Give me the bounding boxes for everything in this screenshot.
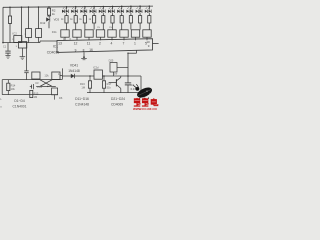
IC2 gate box mid bbox=[93, 66, 102, 80]
resistor R14 10k bbox=[7, 80, 16, 95]
output box HL1 bbox=[61, 30, 69, 41]
diode VD41 bbox=[71, 74, 75, 79]
svg-text:1N: 1N bbox=[97, 27, 100, 29]
gate box D13 bbox=[32, 72, 40, 79]
gate box D25 bbox=[109, 58, 128, 76]
wire astable out bbox=[58, 68, 62, 79]
IC2 box A bbox=[14, 36, 22, 43]
svg-text:D11: D11 bbox=[52, 30, 57, 34]
label CD4015 bbox=[47, 50, 60, 54]
label D11 bbox=[52, 30, 57, 34]
resistor R15 1M bbox=[30, 90, 39, 99]
svg-text:12k: 12k bbox=[44, 73, 49, 77]
svg-text:C1N4148: C1N4148 bbox=[75, 103, 89, 107]
svg-text:8: 8 bbox=[83, 48, 85, 52]
label IC1 bbox=[53, 45, 58, 49]
label 1N4001 bbox=[13, 104, 27, 108]
ground C1 bbox=[5, 56, 10, 59]
pin 9 IC1 right bbox=[148, 44, 150, 48]
svg-text:11: 11 bbox=[87, 42, 91, 46]
capacitor C4 0.47u bbox=[125, 76, 131, 93]
wire top supply rail bbox=[3, 6, 153, 7]
svg-text:D12: D12 bbox=[40, 21, 46, 25]
LED pair VD4 with resistor column 1 bbox=[61, 6, 69, 30]
transistor VT1 bbox=[109, 72, 121, 92]
wire bottom section top rail bbox=[2, 79, 62, 81]
svg-text:10k: 10k bbox=[11, 87, 16, 91]
wire bottom left edge bbox=[1, 80, 3, 95]
svg-text:R14: R14 bbox=[11, 84, 16, 88]
label D1-D4 bbox=[14, 99, 25, 103]
label above box col 5 bbox=[97, 27, 100, 29]
pin 5 IC1 bbox=[145, 42, 147, 46]
wire IC1 to C4 node bbox=[127, 50, 136, 76]
svg-text:51k: 51k bbox=[107, 86, 112, 90]
LED pair VD5 with resistor column 2 bbox=[70, 6, 78, 30]
gate box D11 bbox=[26, 29, 32, 43]
svg-text:1M: 1M bbox=[81, 86, 85, 90]
resistor R2 1k bbox=[47, 6, 55, 16]
svg-text:C1N4001: C1N4001 bbox=[13, 104, 27, 108]
svg-text:1N4148: 1N4148 bbox=[68, 69, 80, 73]
svg-text:13: 13 bbox=[58, 42, 62, 46]
label C4 bbox=[131, 83, 135, 87]
svg-text:CD4015: CD4015 bbox=[47, 50, 60, 54]
svg-text:1: 1 bbox=[134, 42, 136, 46]
svg-text:9: 9 bbox=[75, 49, 77, 53]
capacitor C1 bbox=[3, 43, 11, 56]
LED pair VD13 with resistor column 10 bbox=[145, 5, 151, 29]
output box HL2 bbox=[73, 30, 81, 41]
LED pair VD6 with resistor column 3 bbox=[79, 6, 87, 30]
pin 13 IC1 bbox=[58, 42, 62, 46]
svg-text:VD41: VD41 bbox=[70, 64, 78, 68]
svg-text:16: 16 bbox=[89, 48, 93, 52]
output box HL6 bbox=[120, 30, 128, 41]
capacitor C3 bbox=[30, 81, 43, 89]
svg-text:D25: D25 bbox=[109, 58, 114, 62]
label VD41 bbox=[70, 64, 78, 68]
label IC2 bbox=[12, 31, 17, 35]
label above box col 6 bbox=[109, 27, 112, 29]
LED pair VD8 with resistor column 5 bbox=[99, 6, 105, 30]
svg-text:R16: R16 bbox=[80, 82, 85, 86]
gate box D14 bbox=[52, 72, 60, 79]
diode D6 bbox=[52, 88, 63, 100]
wire left supply rail bbox=[2, 7, 4, 42]
LED pair VD12 with resistor column 9 bbox=[136, 5, 142, 29]
resistor R1 bbox=[8, 6, 11, 42]
LED VD3 bbox=[46, 15, 59, 28]
watermark char dian bbox=[151, 98, 158, 105]
svg-text:R15: R15 bbox=[34, 91, 39, 95]
wire bottom section lower rail bbox=[2, 94, 58, 96]
svg-text:12: 12 bbox=[74, 42, 78, 46]
node C4 top bbox=[127, 75, 129, 77]
label D21-D24 bbox=[111, 97, 125, 101]
label 1N4148 bbox=[68, 69, 80, 73]
svg-text:2: 2 bbox=[99, 42, 101, 46]
wire IC1 pin10 exit bbox=[153, 42, 159, 44]
resistor R16 1M bbox=[80, 76, 92, 93]
svg-text:WWW.CC-DZ.CO: WWW.CC-DZ.CO bbox=[133, 107, 157, 110]
label CD4069 bbox=[111, 103, 123, 107]
wire column to IC2 bbox=[21, 6, 23, 41]
output box HL5 bbox=[108, 30, 116, 41]
svg-text:D6: D6 bbox=[59, 96, 63, 100]
label D12 bbox=[40, 21, 46, 25]
svg-text:1M: 1M bbox=[34, 95, 38, 99]
svg-text:0.1u: 0.1u bbox=[37, 85, 43, 89]
node R16 bbox=[89, 75, 91, 77]
LED pair VD11 with resistor column 8 bbox=[126, 5, 132, 29]
pin 1 IC1 bbox=[134, 42, 136, 46]
output box HL8 bbox=[143, 30, 151, 41]
svg-text:7: 7 bbox=[123, 42, 125, 46]
node R17 bbox=[103, 75, 105, 77]
op IC1 CD4015 box bbox=[57, 39, 153, 53]
wire node line to IC1 bbox=[2, 41, 57, 43]
pin digit above IC1 col1 bbox=[63, 38, 72, 41]
LED pair VD7 with resistor column 4 bbox=[89, 6, 97, 30]
svg-text:VD3: VD3 bbox=[54, 18, 60, 22]
svg-text:CD4069: CD4069 bbox=[111, 103, 123, 107]
pin 12 IC1 bbox=[74, 42, 78, 46]
svg-text:IC2: IC2 bbox=[12, 31, 17, 35]
pin 2 IC1 bbox=[99, 42, 101, 46]
pin 11 IC1 bbox=[87, 42, 91, 46]
wire column to gate D11 bbox=[28, 6, 30, 28]
wire bottom rail right bbox=[87, 92, 144, 94]
output box HL7 bbox=[131, 30, 139, 41]
label D11-D16 bbox=[75, 97, 89, 101]
gate box D12 bbox=[36, 29, 42, 43]
svg-text:4: 4 bbox=[111, 42, 113, 46]
pin 8 IC1 bottom bbox=[83, 48, 85, 52]
stray pin digits IC2 bbox=[12, 34, 30, 48]
output box HL3 bbox=[85, 30, 93, 41]
wire control bus bbox=[62, 75, 141, 77]
label C1N4148 bbox=[75, 103, 89, 107]
wire cross coupling bbox=[36, 80, 56, 87]
stray margin text bbox=[0, 97, 2, 109]
pin 10 IC1 bbox=[146, 40, 150, 44]
LED pair VD9 with resistor column 6 bbox=[108, 6, 114, 30]
label 0.47u bbox=[131, 87, 137, 91]
wire right drop bbox=[140, 76, 142, 93]
svg-text:VT: VT bbox=[114, 72, 118, 76]
resistor R17 51k bbox=[102, 76, 112, 93]
svg-text:D21~D24: D21~D24 bbox=[111, 97, 125, 101]
svg-text:D1~D4: D1~D4 bbox=[14, 99, 25, 103]
svg-text:IC2d: IC2d bbox=[93, 66, 99, 70]
svg-text:1N: 1N bbox=[109, 27, 112, 29]
svg-text:C3: C3 bbox=[35, 81, 39, 85]
pin 7 IC1 bbox=[123, 42, 125, 46]
ground IC1 pin8 bbox=[81, 52, 87, 60]
label 12k bbox=[44, 73, 49, 77]
watermark bug icon bbox=[133, 84, 153, 99]
pin 4 IC1 bbox=[111, 42, 113, 46]
output box HL4 bbox=[96, 30, 104, 41]
watermark url bbox=[133, 107, 157, 111]
pin 16 IC1 bottom bbox=[89, 48, 93, 52]
svg-text:D11~D16: D11~D16 bbox=[75, 97, 89, 101]
watermark text chong chong bbox=[134, 98, 149, 106]
pin 9 IC1 bottom bbox=[75, 49, 77, 53]
capacitor C2 column bbox=[24, 42, 28, 80]
ground IC2 bbox=[20, 48, 26, 60]
wire column to gate D12 bbox=[38, 6, 40, 28]
LED pair VD10 with resistor column 7 bbox=[117, 6, 123, 30]
IC2 box B bbox=[18, 42, 26, 48]
